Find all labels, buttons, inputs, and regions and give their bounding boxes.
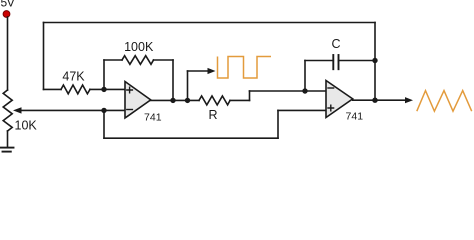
svg-text:100K: 100K (124, 40, 154, 54)
wire 47K left lead (44, 88, 62, 90)
wire C feedback left vertical (304, 61, 306, 92)
svg-text:47K: 47K (62, 70, 85, 84)
U2 minus sign (328, 87, 334, 89)
svg-text:741: 741 (346, 111, 364, 123)
svg-text:5V: 5V (1, 0, 15, 9)
svg-text:741: 741 (144, 112, 162, 124)
wire 100K left vertical (103, 60, 105, 89)
node +5V (red) (3, 11, 10, 18)
wire into U2 inverting input (250, 90, 327, 92)
resistor 100K (122, 56, 154, 65)
wire bottom loop horizontal (104, 137, 278, 139)
square wave symbol (218, 57, 272, 79)
wire 100K right lead (154, 59, 174, 61)
wire square-wave tap vertical (187, 71, 189, 100)
node junction U1out/square-wave tap (185, 98, 190, 103)
square-wave arrow (208, 68, 216, 74)
wire square-wave tap horizontal (188, 70, 209, 72)
node junction U2out/top-feedback (372, 98, 377, 103)
wire top feedback right vertical (to U2 output) (374, 23, 376, 101)
wire 47K to U1 non-inverting input (90, 88, 125, 90)
triangle wave symbol (417, 91, 472, 112)
ground (0, 148, 14, 152)
U1 minus sign (127, 109, 133, 111)
potentiometer R1 10K body (3, 90, 12, 131)
op-amp U1 741 (125, 82, 151, 119)
wire into U2 non-inverting input (278, 109, 326, 111)
wire 100K left lead (104, 59, 122, 61)
triangle-wave output arrow (405, 97, 413, 103)
wire 5V node down to potentiometer top (7, 17, 9, 90)
wire C right lead (339, 60, 376, 62)
wire top feedback left vertical (43, 23, 45, 90)
wire bottom loop down (103, 110, 105, 138)
wire U1 output (151, 99, 199, 101)
wire bottom loop up to U2 non-inverting input (277, 110, 279, 138)
wire R to corner (230, 99, 250, 101)
node junction C-feedback/U2- (302, 88, 307, 93)
capacitor C plates (333, 55, 338, 69)
wire wiper to U1 inverting input (20, 109, 125, 111)
wire pot bottom to ground (7, 131, 9, 147)
wire corner up to U2 inverting level (249, 91, 251, 100)
node junction 47K/100K/U1+ (101, 87, 106, 92)
wire top feedback horizontal (44, 22, 376, 24)
node junction C/top-feedback vertical (372, 58, 377, 63)
wire C left lead (305, 60, 333, 62)
pot wiper arrow (13, 107, 22, 113)
node junction U1out/100K (170, 98, 175, 103)
resistor R (199, 96, 230, 105)
wire U2 output (353, 99, 405, 101)
node junction wiper/bottom-loop (101, 108, 106, 113)
U1 plus sign (127, 87, 133, 93)
op-amp U2 741 (326, 81, 353, 118)
resistor 47K (61, 85, 90, 94)
wire 100K right vertical down to U1 output (172, 60, 174, 100)
svg-text:C: C (331, 37, 340, 51)
U2 plus sign (328, 105, 334, 111)
svg-text:10K: 10K (15, 119, 38, 133)
svg-text:R: R (208, 108, 217, 122)
